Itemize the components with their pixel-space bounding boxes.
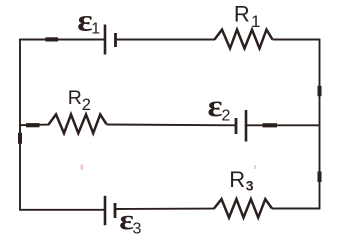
thick mark on right vertical wire lower	[318, 172, 322, 183]
battery E3 tall plate	[104, 196, 107, 225]
svg-text:R: R	[229, 167, 245, 192]
wire bottom-left segment	[19, 209, 105, 211]
label epsilon1	[77, 4, 92, 38]
wire left vertical	[19, 39, 21, 211]
artifact pink dot left	[81, 165, 83, 170]
thick mark on middle wire right	[263, 123, 278, 127]
label epsilon2	[208, 90, 223, 123]
thick mark on right vertical wire upper	[318, 86, 322, 96]
wire middle-mid segment	[107, 124, 237, 127]
battery E2 tall plate	[245, 110, 248, 142]
wire bottom-right segment	[272, 208, 320, 210]
wire right vertical	[319, 39, 321, 210]
label epsilon3	[119, 204, 134, 236]
wire top-mid segment	[116, 39, 216, 41]
svg-text:R: R	[234, 2, 250, 27]
resistor R2 zigzag	[49, 114, 107, 133]
battery E2 short plate	[235, 118, 238, 134]
wire top-left segment	[19, 39, 105, 41]
resistor R3 zigzag	[214, 199, 272, 218]
svg-text:3: 3	[133, 221, 142, 238]
artifact pink dot right	[254, 165, 256, 169]
svg-text:2: 2	[82, 96, 91, 114]
resistor R1 zigzag	[215, 30, 273, 49]
wire bottom-mid segment	[115, 208, 215, 210]
svg-text:3: 3	[246, 177, 254, 193]
svg-text:ε: ε	[208, 90, 223, 123]
svg-text:1: 1	[251, 12, 260, 31]
thick mark on top wire	[46, 37, 59, 41]
wire middle-right segment	[246, 124, 320, 126]
thick mark on middle wire left	[26, 123, 40, 127]
battery E1 tall plate	[104, 25, 107, 55]
battery E1 short plate	[114, 33, 117, 47]
thick mark on left vertical wire	[18, 133, 22, 144]
wire top-right segment	[273, 39, 321, 41]
svg-text:2: 2	[222, 108, 231, 125]
svg-text:1: 1	[91, 21, 100, 38]
wire middle-left segment	[19, 124, 49, 127]
svg-text:R: R	[68, 87, 82, 109]
battery E3 short plate	[114, 203, 117, 218]
